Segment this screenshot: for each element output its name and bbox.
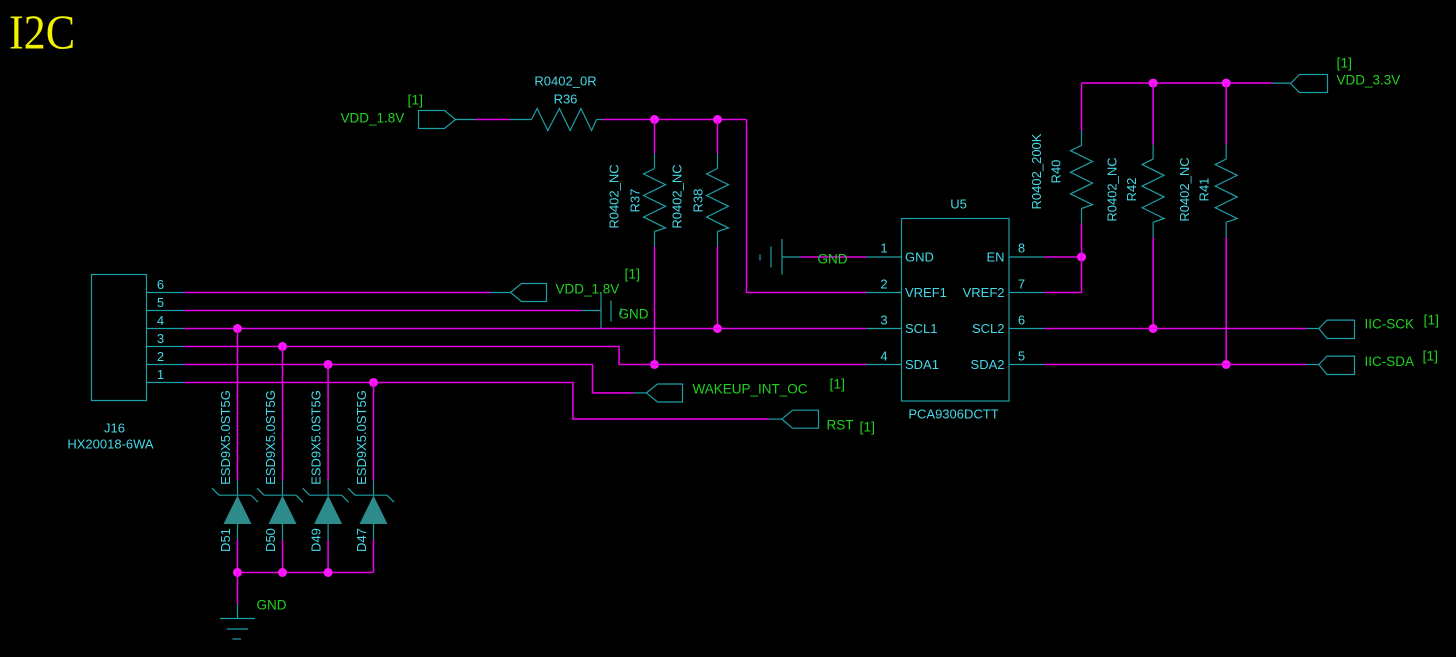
svg-text:[1]: [1] xyxy=(860,419,876,435)
connector J16 body xyxy=(67,275,154,452)
svg-text:D51: D51 xyxy=(218,528,233,552)
svg-text:[1]: [1] xyxy=(625,266,641,282)
svg-text:4: 4 xyxy=(880,349,887,364)
svg-text:[1]: [1] xyxy=(1423,348,1439,364)
wire VDD_3.3V rail xyxy=(1082,82,1291,84)
ground symbol (J16 pin 5) xyxy=(601,294,621,329)
resistor R38 xyxy=(670,120,729,329)
node junction R38 bottom on SCL1 wire xyxy=(713,324,722,333)
svg-text:SCL2: SCL2 xyxy=(972,321,1005,336)
node junction rail R42 xyxy=(1149,79,1158,88)
svg-text:3: 3 xyxy=(880,313,887,328)
svg-text:VREF2: VREF2 xyxy=(963,285,1005,300)
J16 pin 3 stub xyxy=(147,346,184,348)
svg-text:RST: RST xyxy=(827,418,854,433)
svg-text:R0402_NC: R0402_NC xyxy=(1177,157,1192,221)
svg-text:4: 4 xyxy=(157,313,164,328)
svg-text:J16: J16 xyxy=(104,421,125,436)
svg-text:ESD9X5.0ST5G: ESD9X5.0ST5G xyxy=(218,390,233,485)
svg-text:SDA2: SDA2 xyxy=(971,357,1005,372)
diode D50 (ESD9X5.0ST5G) xyxy=(257,347,303,573)
svg-text:PCA9306DCTT: PCA9306DCTT xyxy=(908,407,998,422)
svg-text:EN: EN xyxy=(986,250,1004,265)
svg-text:VDD_3.3V: VDD_3.3V xyxy=(1337,73,1401,88)
wire SDA2 to IIC-SDA flag xyxy=(1044,364,1319,366)
svg-text:D47: D47 xyxy=(354,528,369,552)
node junction rail R41 xyxy=(1222,79,1231,88)
svg-text:2: 2 xyxy=(880,277,887,292)
J16 pin 6 stub xyxy=(147,292,184,294)
svg-text:R0402_200K: R0402_200K xyxy=(1029,133,1044,209)
svg-text:R36: R36 xyxy=(554,92,578,107)
svg-text:WAKEUP_INT_OC: WAKEUP_INT_OC xyxy=(693,382,808,397)
svg-text:ESD9X5.0ST5G: ESD9X5.0ST5G xyxy=(263,390,278,485)
svg-text:[1]: [1] xyxy=(830,376,846,392)
net flag RST xyxy=(782,410,875,434)
svg-text:D50: D50 xyxy=(263,528,278,552)
pin 7 stub wire xyxy=(1009,292,1044,294)
J16 pin 4 stub xyxy=(147,328,184,330)
net flag IIC-SDA xyxy=(1319,348,1438,375)
svg-text:R0402_0R: R0402_0R xyxy=(534,74,596,89)
wire GND to U5 pin 1 xyxy=(801,256,902,258)
wire rail to GND xyxy=(237,573,239,619)
node junction D51 top xyxy=(233,324,242,333)
svg-text:HX20018-6WA: HX20018-6WA xyxy=(67,437,154,452)
svg-text:IIC-SCK: IIC-SCK xyxy=(1365,317,1415,332)
diode D51 (ESD9X5.0ST5G) xyxy=(212,329,258,573)
node junction D50 top xyxy=(278,342,287,351)
svg-text:R0402_NC: R0402_NC xyxy=(670,164,685,228)
svg-text:D49: D49 xyxy=(309,528,324,552)
wire J16 pin6 to VDD_1.8V flag xyxy=(184,292,511,294)
pin 6 stub wire xyxy=(1009,328,1044,330)
svg-text:1: 1 xyxy=(157,367,164,382)
svg-text:R42: R42 xyxy=(1124,178,1139,202)
svg-text:6: 6 xyxy=(1018,313,1025,328)
svg-text:VDD_1.8V: VDD_1.8V xyxy=(556,282,620,297)
node junction at R37 top xyxy=(650,115,659,124)
svg-text:7: 7 xyxy=(1018,277,1025,292)
node junction R37 bottom on SDA1 wire xyxy=(650,360,659,369)
power flag VDD_1.8V (top) xyxy=(341,92,476,129)
svg-text:SCL1: SCL1 xyxy=(905,321,938,336)
svg-text:VREF1: VREF1 xyxy=(905,285,947,300)
wire J16 pin2 to WAKEUP_INT_OC flag xyxy=(184,365,647,393)
svg-text:U5: U5 xyxy=(950,197,967,212)
svg-text:GND: GND xyxy=(905,250,934,265)
resistor R36 xyxy=(532,74,603,131)
wire diode common rail xyxy=(238,572,374,574)
svg-text:[1]: [1] xyxy=(408,92,424,108)
ground symbol (bottom) xyxy=(220,619,255,640)
svg-text:5: 5 xyxy=(1018,349,1025,364)
svg-text:R0402_NC: R0402_NC xyxy=(607,164,622,228)
resistor R37 xyxy=(607,120,666,365)
svg-text:R0402_NC: R0402_NC xyxy=(1105,157,1120,221)
svg-text:GND: GND xyxy=(619,307,649,322)
resistor R42 xyxy=(1105,83,1165,328)
svg-text:GND: GND xyxy=(257,598,287,613)
power flag VDD_1.8V (J16 pin 6) xyxy=(511,266,641,302)
node junction R41 bottom on SDA2 xyxy=(1222,360,1231,369)
node junction rail D50 xyxy=(278,568,287,577)
svg-text:5: 5 xyxy=(157,295,164,310)
svg-text:[1]: [1] xyxy=(1337,55,1353,71)
svg-text:SDA1: SDA1 xyxy=(905,357,939,372)
svg-text:R40: R40 xyxy=(1049,160,1064,184)
resistor R41 xyxy=(1177,83,1237,364)
net flag IIC-SCK xyxy=(1319,312,1439,339)
svg-text:6: 6 xyxy=(157,277,164,292)
wire flag to R36 xyxy=(476,119,532,121)
J16 pin 1 stub xyxy=(147,382,184,384)
node junction D49 top xyxy=(324,360,333,369)
wire junction down to VREF2 xyxy=(1044,257,1082,293)
svg-text:R41: R41 xyxy=(1197,178,1212,202)
node junction rail D51 xyxy=(233,568,242,577)
svg-text:ESD9X5.0ST5G: ESD9X5.0ST5G xyxy=(309,390,324,485)
node junction R42 bottom on SCL2 xyxy=(1149,324,1158,333)
diode D47 (ESD9X5.0ST5G) xyxy=(348,383,394,573)
svg-text:ESD9X5.0ST5G: ESD9X5.0ST5G xyxy=(354,390,369,485)
wire R36 to VREF1 rail xyxy=(603,120,902,293)
power flag VDD_3.3V xyxy=(1291,55,1401,93)
pin 4 stub wire xyxy=(867,364,902,366)
wire EN to R40 bottom xyxy=(1044,256,1082,258)
ground symbol at U5 pin 1 xyxy=(760,239,801,275)
svg-text:[1]: [1] xyxy=(1424,312,1440,328)
diode D49 (ESD9X5.0ST5G) xyxy=(303,365,349,573)
svg-text:8: 8 xyxy=(1018,241,1025,256)
svg-text:R38: R38 xyxy=(691,189,706,213)
node junction EN / R40 / VREF2 xyxy=(1077,253,1086,262)
pin 3 stub wire xyxy=(867,328,902,330)
node junction D47 top xyxy=(369,378,378,387)
resistor R40 xyxy=(1029,83,1093,257)
svg-text:VDD_1.8V: VDD_1.8V xyxy=(341,111,405,126)
wire SCL2 to IIC-SCK flag xyxy=(1044,328,1319,330)
pin 8 stub wire xyxy=(1009,256,1044,258)
svg-text:IIC-SDA: IIC-SDA xyxy=(1365,354,1415,369)
wire J16 pin1 to RST flag xyxy=(184,383,782,420)
svg-text:GND: GND xyxy=(818,252,848,267)
J16 pin 5 stub xyxy=(147,310,184,312)
wire J16 pin4 to U5 SCL1 xyxy=(184,328,867,330)
net flag WAKEUP_INT_OC xyxy=(647,376,846,403)
pin 5 stub wire xyxy=(1009,364,1044,366)
J16 pin 2 stub xyxy=(147,364,184,366)
svg-text:3: 3 xyxy=(157,331,164,346)
wire J16 pin5 to GND xyxy=(184,310,602,312)
op-amp U5 chip body xyxy=(902,197,1010,422)
svg-text:R37: R37 xyxy=(628,189,643,213)
node junction at R38 top xyxy=(713,115,722,124)
svg-text:2: 2 xyxy=(157,349,164,364)
svg-text:1: 1 xyxy=(880,241,887,256)
node junction rail D49 xyxy=(324,568,333,577)
svg-text:I2C: I2C xyxy=(9,5,75,60)
wire J16 pin3 to U5 SDA1 xyxy=(184,347,867,365)
